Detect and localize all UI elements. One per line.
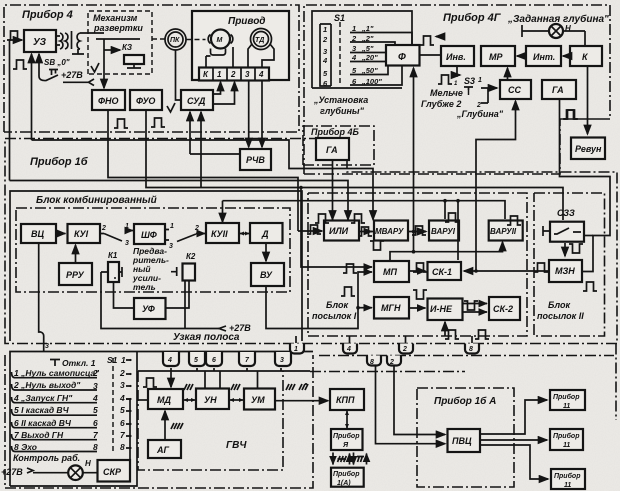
svg-text:Механизм: Механизм [93, 13, 138, 23]
svg-text:1: 1 [294, 346, 298, 353]
Предварительный усилитель text [132, 246, 169, 292]
Прибор 11 box 2 [550, 429, 583, 450]
ВУ wire to МП/МГН [266, 272, 372, 329]
svg-text:Прибор: Прибор [553, 393, 580, 401]
svg-text:2: 2 [230, 70, 236, 79]
ШФ box [134, 224, 165, 244]
svg-text:ПК: ПК [170, 37, 180, 44]
svg-text:Откл. 1: Откл. 1 [62, 358, 96, 368]
svg-text:МР: МР [489, 52, 503, 62]
svg-text:2: 2 [476, 102, 481, 109]
pulse at УЗ input [7, 31, 21, 40]
svg-text:8: 8 [469, 346, 473, 353]
Блок комбинированный box [10, 191, 302, 341]
svg-text:S1: S1 [334, 13, 345, 23]
КУII-ВАРУ bus y=200.7 [223, 201, 506, 219]
svg-text:6: 6 [93, 418, 98, 428]
svg-text:КУI: КУI [74, 229, 89, 239]
МД <-> УН [183, 399, 196, 401]
svg-text:Блок: Блок [548, 300, 570, 310]
pulse at ГВЧ top-left [143, 378, 157, 387]
svg-text:„50": „50" [361, 66, 378, 75]
И-НЕ -> СК-2 two wires [463, 303, 488, 305]
svg-text:ВАРУI: ВАРУI [431, 227, 456, 236]
wires from chips 8,2 to ПВЦ [376, 366, 446, 444]
ПВЦ to Прибор 11 x3 [480, 400, 547, 434]
СС -> МР [507, 68, 509, 80]
svg-text:1: 1 [478, 77, 482, 84]
СК-2 box [489, 297, 520, 320]
И-НЕ box [428, 299, 463, 321]
М circle [211, 30, 230, 49]
МП -> СК-1 [409, 270, 426, 272]
СУД to terminals 1,2 [213, 82, 221, 94]
svg-text:МП: МП [383, 267, 397, 277]
hash marks [171, 384, 308, 429]
wire A vertical up into УЗ bottom [31, 54, 33, 140]
ИЛИ to МВАРУ [359, 231, 372, 233]
svg-text:ПВЦ: ПВЦ [452, 436, 472, 446]
МР box [481, 46, 515, 66]
ГА box (4Г) [542, 80, 576, 99]
ФНО top arrow already; ФНО bottom wire C [108, 110, 322, 231]
svg-text:Прибор 4Г: Прибор 4Г [443, 12, 502, 24]
chips on Прибор 1Б bottom y=343 [290, 344, 479, 354]
svg-text:6: 6 [212, 357, 216, 364]
svg-text:ФУО: ФУО [136, 96, 155, 106]
svg-text:2: 2 [389, 359, 394, 366]
К box [570, 46, 602, 66]
svg-text:Я: Я [342, 442, 349, 449]
wire SB switch to УЗ bottom [39, 54, 58, 81]
Блок посылок I dash-dot box [308, 193, 527, 336]
svg-text:+27В: +27В [1, 467, 23, 477]
svg-text:посылок II: посылок II [537, 311, 584, 321]
svg-text:„5": „5" [361, 44, 374, 53]
Откл switch symbol [50, 360, 60, 367]
terminals 3,4 down to РЧВ [248, 81, 250, 148]
МД left input [137, 399, 148, 401]
pulse near Инв [420, 36, 434, 45]
svg-text:4: 4 [119, 393, 125, 403]
ГВЧ box [138, 370, 310, 372]
svg-text:ВЦ: ВЦ [31, 229, 44, 239]
СУД bottom inputs [189, 112, 191, 154]
svg-text:Глубже 2: Глубже 2 [421, 99, 461, 109]
svg-text:Мельче: Мельче [430, 88, 463, 98]
wire B [10, 181, 349, 220]
pulse under ФНО [114, 119, 128, 128]
svg-text:4: 4 [167, 357, 172, 364]
Прибор 1(А) box [331, 468, 364, 487]
Прибор 11 box 3 [551, 469, 585, 489]
svg-text:2: 2 [101, 225, 106, 232]
УЗ box [24, 30, 56, 52]
МЗН top input E [534, 263, 548, 272]
ВАРУII box [489, 221, 523, 241]
svg-text:Прибор: Прибор [333, 470, 360, 478]
svg-text:КУII: КУII [211, 229, 228, 239]
S3 contacts to СС [481, 88, 497, 103]
ВУ box [251, 263, 284, 286]
svg-text:8 Эхо: 8 Эхо [14, 442, 37, 452]
svg-text:1: 1 [170, 223, 174, 230]
svg-text:Инт.: Инт. [533, 52, 555, 62]
svg-text:S3: S3 [464, 76, 475, 86]
svg-text:1: 1 [121, 355, 126, 365]
svg-text:Прибор 4Б: Прибор 4Б [311, 127, 360, 137]
svg-text:8: 8 [370, 359, 374, 366]
svg-text:„100": „100" [361, 77, 382, 86]
relay supply wires [101, 272, 219, 329]
svg-text:Н: Н [85, 459, 91, 468]
Прибор 4Б dash-dot border [303, 126, 374, 165]
УМ -> КПП [275, 400, 328, 402]
svg-text:3: 3 [280, 357, 284, 364]
svg-text:„1": „1" [361, 24, 374, 33]
list row lines [12, 372, 98, 452]
СС box [500, 80, 531, 99]
svg-text:3: 3 [125, 240, 129, 247]
V mark near СУД [167, 103, 175, 112]
svg-text:„Глубина": „Глубина" [456, 109, 504, 119]
pulses around ИЛИ [315, 214, 329, 223]
svg-text:5: 5 [194, 357, 198, 364]
S1 rows [320, 22, 412, 86]
ТД circle [251, 29, 272, 50]
Ф output to Инв [420, 54, 442, 56]
svg-text:ВУ: ВУ [260, 270, 273, 280]
СКР box [98, 460, 131, 482]
svg-text:„20": „20" [361, 53, 378, 62]
ГА(4Б) to ИЛИ [332, 160, 334, 220]
svg-text:8: 8 [120, 442, 125, 452]
svg-text:SB „0": SB „0" [44, 58, 70, 67]
svg-text:5 I каскад ВЧ: 5 I каскад ВЧ [14, 405, 70, 415]
pulse above ВАРУII [507, 216, 521, 225]
S3 pulse annotation [438, 75, 452, 84]
МП inputs [301, 188, 372, 268]
pulse below СК-2 left [475, 330, 489, 339]
М brush [211, 49, 226, 56]
svg-text:11: 11 [563, 442, 570, 449]
Инт box [526, 46, 561, 66]
svg-text:6 II каскад ВЧ: 6 II каскад ВЧ [14, 418, 72, 428]
svg-text:5: 5 [93, 405, 98, 415]
РРУ -> КУI [75, 245, 77, 263]
ПК circle [165, 29, 186, 50]
Привод box [192, 11, 289, 80]
wire into УЗ left (from wire B) [10, 40, 23, 181]
УН box [196, 389, 229, 410]
РЧВ box [240, 149, 271, 170]
МГН -> И-НЕ [409, 307, 426, 309]
svg-text:7 Выход ГН: 7 Выход ГН [14, 430, 64, 440]
СУД line 1 to РЧВ [190, 153, 240, 155]
УН <-> УМ [229, 399, 244, 401]
МГН box [374, 297, 409, 319]
svg-text:ТД: ТД [255, 37, 264, 44]
svg-text:1: 1 [323, 25, 327, 34]
svg-text:11: 11 [564, 482, 571, 489]
svg-text:3: 3 [120, 380, 125, 390]
svg-text:К1: К1 [108, 251, 118, 260]
СЗЗ to МЗН chain [583, 235, 593, 237]
svg-text:УФ: УФ [142, 304, 155, 314]
svg-text:„Установка: „Установка [313, 95, 368, 105]
svg-text:УЗ: УЗ [33, 37, 47, 48]
Инв box [441, 46, 474, 66]
svg-text:8: 8 [93, 442, 98, 452]
svg-text:Инв.: Инв. [446, 52, 466, 62]
СК-1 box [428, 262, 462, 280]
svg-text:МЗН: МЗН [555, 266, 575, 276]
svg-text:4: 4 [346, 346, 351, 353]
svg-text:2: 2 [402, 346, 407, 353]
ФУО bottom wire D [146, 110, 563, 220]
svg-text:Привод: Привод [228, 16, 266, 27]
СЗЗ switch symbol [543, 226, 581, 236]
svg-text:4 „Запуск ГН": 4 „Запуск ГН" [13, 393, 73, 403]
svg-text:Д: Д [261, 229, 269, 239]
ФНО box [92, 90, 125, 110]
ВАРУI box [429, 221, 459, 241]
svg-text:МГН: МГН [381, 303, 401, 313]
ВЦ -> КУI [56, 233, 66, 235]
svg-text:2: 2 [119, 368, 125, 378]
svg-text:Прибор 1б: Прибор 1б [30, 156, 89, 168]
МЗН box [549, 260, 582, 282]
К down to Ревун [587, 66, 589, 134]
svg-text:Ревун: Ревун [575, 144, 602, 154]
svg-text:МД: МД [157, 395, 171, 405]
И-НЕ bottom arrow [444, 322, 446, 336]
svg-text:СК-2: СК-2 [493, 304, 513, 314]
ШФ switch to КУII [165, 230, 169, 241]
svg-text:глубины": глубины" [320, 106, 365, 116]
Прибор 1БА dash-dot box [417, 388, 514, 487]
transformer УЗ [56, 36, 60, 45]
chips row on Блок комбинированный bottom [163, 352, 291, 366]
svg-text:развертки: развертки [93, 23, 143, 33]
svg-text:ФНО: ФНО [98, 96, 119, 106]
svg-text:3: 3 [245, 70, 250, 79]
svg-text:1 „Нуль самописца": 1 „Нуль самописца" [14, 368, 100, 378]
Прибор 4Г dash-dot border [304, 5, 610, 174]
svg-text:ВАРУII: ВАРУII [490, 227, 517, 236]
svg-text:КЗ: КЗ [122, 43, 132, 52]
Механизм развертки internals [96, 38, 140, 40]
АГ -> МД [164, 411, 166, 440]
Я <-> 1(А) arrows and hashes [333, 453, 367, 465]
svg-text:Блок: Блок [326, 300, 348, 310]
svg-text:РРУ: РРУ [66, 270, 85, 280]
svg-text:ШФ: ШФ [141, 230, 157, 240]
svg-text:РЧВ: РЧВ [246, 155, 265, 165]
svg-text:СЗЗ: СЗЗ [557, 208, 575, 218]
svg-text:М: М [217, 37, 223, 44]
Блок посылок II dash-dot box [534, 193, 605, 336]
svg-text:„2": „2" [361, 34, 374, 43]
pulse under ФУО [151, 118, 165, 127]
svg-text:3: 3 [169, 243, 173, 250]
svg-text:УМ: УМ [251, 395, 265, 405]
МВАРУ box [374, 221, 408, 241]
svg-text:Прибор: Прибор [554, 472, 581, 480]
pulse between МВАРУ и ВАРУI [412, 226, 426, 235]
АГ box [148, 440, 181, 458]
svg-text:СС: СС [508, 85, 521, 95]
SB switch symbol [49, 70, 58, 76]
svg-text:Прибор: Прибор [333, 432, 360, 440]
ВЦ box [21, 224, 56, 243]
svg-text:4: 4 [322, 56, 328, 65]
МП pulses [370, 241, 384, 250]
svg-text:6: 6 [120, 418, 125, 428]
svg-text:ГВЧ: ГВЧ [226, 440, 247, 451]
pulse below УЗ left [13, 60, 27, 69]
bottom-left unit dash-dot border [5, 355, 313, 488]
svg-text:2: 2 [322, 35, 328, 44]
МГН pulses [341, 287, 355, 296]
svg-text:1: 1 [217, 70, 222, 79]
svg-text:3: 3 [45, 343, 49, 350]
Прибор 11 box 1 [550, 390, 585, 410]
svg-text:АГ: АГ [156, 445, 169, 455]
chips on y=355 row [367, 356, 401, 366]
КУI box [68, 224, 101, 243]
wires from chips to ГВЧ units [170, 368, 172, 387]
Ф bus vertical [413, 68, 415, 252]
pulse right of ГА wire [564, 110, 578, 119]
svg-text:2 „Нуль выход": 2 „Нуль выход" [13, 380, 81, 390]
svg-text:ИЛИ: ИЛИ [329, 226, 349, 236]
svg-text:1: 1 [125, 223, 129, 230]
СКР wire [126, 398, 130, 400]
svg-text:Прибор: Прибор [553, 432, 580, 440]
СЗЗ box [550, 222, 584, 242]
wire to Механизм [83, 32, 104, 34]
svg-text:2: 2 [194, 225, 199, 232]
Инт -> МР, К -> Инт [517, 55, 526, 57]
svg-text:5: 5 [120, 405, 125, 415]
wire A [32, 140, 374, 220]
Д box [250, 223, 283, 243]
svg-text:Ф: Ф [398, 52, 406, 63]
svg-text:ГА: ГА [552, 85, 564, 95]
Ревун box [571, 138, 605, 160]
КУII box [206, 223, 239, 243]
ТД wires [248, 44, 274, 68]
Ф box [386, 45, 420, 66]
svg-text:1: 1 [352, 24, 356, 33]
ГА(4Г) down to СЗЗ [560, 99, 611, 272]
МД box [148, 389, 183, 409]
КПП box [330, 389, 364, 410]
Прибор 1Б dash-dot border [5, 139, 617, 344]
terminal row К 1 2 3 4 [199, 68, 269, 81]
contacts right column [126, 360, 130, 448]
svg-text:Контроль раб.: Контроль раб. [13, 453, 80, 463]
svg-text:4: 4 [258, 70, 264, 79]
svg-text:ГА: ГА [326, 145, 338, 155]
svg-text:МВАРУ: МВАРУ [375, 227, 404, 236]
КЗ contact plate [124, 55, 144, 64]
ГА(4Г) bottom pulse [563, 110, 577, 119]
bottom-left list box [10, 352, 313, 487]
svg-text:УН: УН [204, 395, 217, 405]
svg-text:4: 4 [92, 393, 98, 403]
УМ box [244, 389, 275, 410]
Инв down to S3 pulse [453, 66, 457, 76]
S1 switch table [312, 11, 412, 88]
svg-text:СУД: СУД [187, 96, 206, 106]
svg-text:Блок комбинированный: Блок комбинированный [36, 194, 157, 206]
ФУО box [130, 90, 162, 110]
svg-text:1(А): 1(А) [337, 480, 351, 487]
ИЛИ box [324, 221, 359, 241]
lamp H [549, 24, 563, 38]
ГА box (4Б) [316, 138, 349, 160]
Д -> ВУ [265, 243, 267, 261]
chip stubs [296, 336, 472, 343]
ПК wire down to СУД [176, 50, 182, 100]
svg-text:Прибор 1б А: Прибор 1б А [434, 395, 496, 407]
svg-text:Узкая полоса: Узкая полоса [173, 332, 240, 343]
Механизм развертки dash-dot box [88, 11, 152, 74]
ПК link dashes [152, 38, 206, 41]
svg-text:посылок I: посылок I [312, 311, 357, 321]
КУII <-> Д double arrow [239, 233, 250, 235]
РРУ box [59, 263, 92, 285]
МВАРУ to ВАРУI [408, 231, 426, 233]
svg-text:К2: К2 [186, 252, 196, 261]
УФ box [134, 298, 166, 319]
Прибор 4 dash-dot border [4, 5, 299, 132]
СУД box [181, 90, 213, 110]
ВЦ bottom wire 3 [39, 243, 44, 352]
pulse above ВАРУI [445, 213, 459, 222]
МП top wire to ВАРУII bottom and Ф bus [390, 242, 503, 261]
МЗН -> СК-1 [464, 270, 549, 272]
svg-text:И-НЕ: И-НЕ [430, 304, 453, 314]
Прибор Я box [331, 429, 363, 450]
svg-text:2: 2 [92, 368, 98, 378]
КПП <-> Я [346, 410, 348, 429]
bottom boundary segment [319, 344, 616, 421]
V mark [91, 63, 99, 72]
svg-text:тель: тель [133, 282, 156, 292]
svg-text:Прибор 4: Прибор 4 [22, 9, 73, 21]
ПВЦ box [448, 429, 481, 452]
svg-text:2: 2 [351, 34, 357, 43]
svg-text:4: 4 [351, 53, 357, 62]
svg-text:СКР: СКР [103, 467, 122, 477]
svg-text:КПП: КПП [336, 395, 355, 405]
svg-text:11: 11 [563, 403, 570, 410]
УФ connections [114, 281, 190, 309]
СС bottom wire [476, 101, 516, 271]
svg-text:+27В: +27В [61, 70, 83, 80]
inner preamp dash-dot box [16, 208, 290, 292]
МП box [374, 261, 409, 282]
svg-text:СК-1: СК-1 [432, 267, 452, 277]
